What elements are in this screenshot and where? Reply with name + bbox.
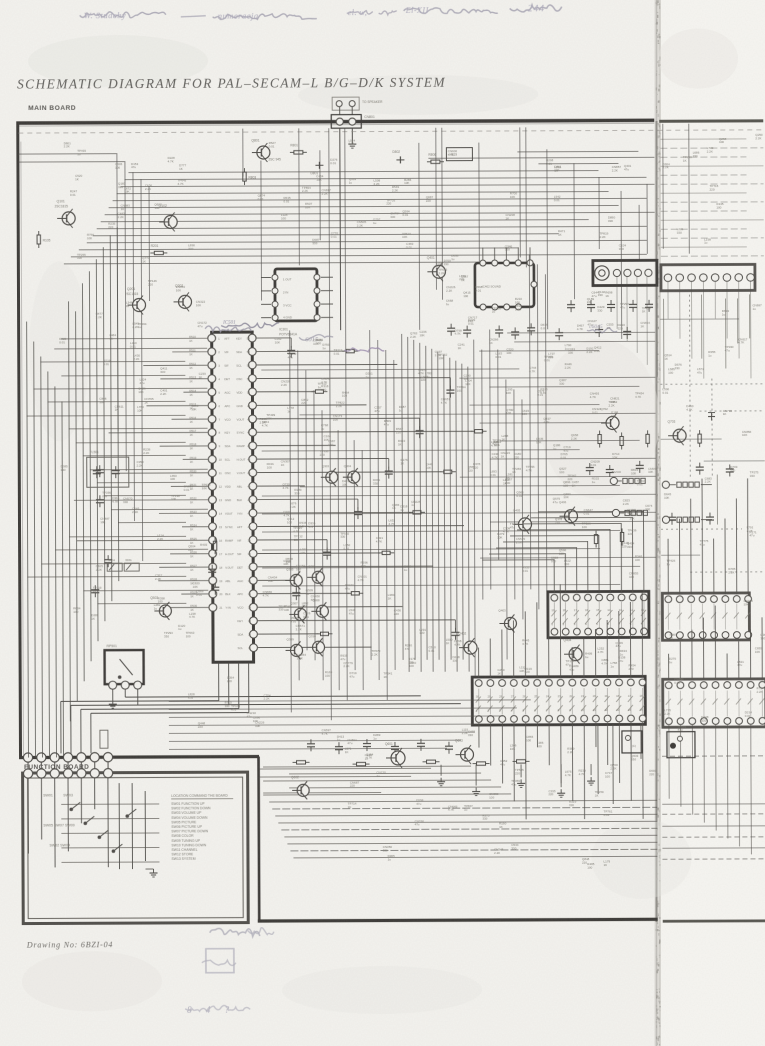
- wires IC801 right part to bus: [669, 725, 751, 855]
- relay RP501 body: [105, 644, 144, 684]
- pencil sketch bottom center: [202, 928, 274, 973]
- transistor Q503: [150, 596, 171, 620]
- connector CN402 right part beyond fold: [661, 264, 755, 290]
- wire bus bottom horizontals lower: [269, 800, 657, 858]
- IC U601 body right part beyond fold: [662, 593, 751, 640]
- IC501 pin stub wires left: [61, 338, 208, 608]
- connector strip CN701: [610, 470, 645, 485]
- transistor Q304: [343, 464, 360, 486]
- transistor Q603: [455, 739, 474, 765]
- IC U801 body right part beyond fold: [663, 679, 765, 727]
- transistor Q310: [307, 634, 324, 656]
- transistor Q702: [600, 407, 619, 433]
- scattered reference labels: [58, 133, 765, 872]
- capacitor cluster under IC401: [447, 323, 631, 341]
- component box M601: [622, 731, 642, 753]
- resistor R403: [200, 537, 217, 554]
- IC501 left pins: [208, 334, 217, 611]
- transistor Q202: [173, 284, 191, 312]
- wire bus center vertical bundle: [402, 329, 499, 671]
- diode-resistor parts under IC801: [292, 738, 529, 766]
- pencil marks page bottom: [185, 1005, 250, 1015]
- component box M602 right of fold: [667, 732, 695, 758]
- dashed line under top border: [18, 130, 763, 133]
- diode D703: [708, 413, 715, 421]
- wire bus top verticals: [117, 124, 691, 561]
- pencil note c6045: [587, 323, 617, 333]
- wire bus center-right horizontals: [261, 332, 656, 586]
- resistor R801: [290, 143, 307, 154]
- right strip connector plugs: [662, 481, 712, 523]
- wire bus function board to right: [259, 768, 431, 793]
- function board inner border: [28, 777, 244, 918]
- wires between board connectors: [28, 761, 108, 769]
- IC601 internal labels: [551, 608, 644, 626]
- wires IC501 to function board: [61, 663, 249, 754]
- transistor Q403: [498, 608, 516, 632]
- IC501 outside labels left: [189, 335, 197, 612]
- transistor Q102: [159, 204, 178, 232]
- main board border top: [16, 120, 654, 123]
- main board border bottom: [258, 919, 658, 921]
- pencil note samsung 13a: [205, 326, 251, 332]
- ground symbols under Q601 area: [437, 764, 595, 798]
- transistor Q406: [559, 500, 578, 526]
- pencil note 6015: [299, 335, 333, 344]
- transistor Q308: [311, 598, 328, 620]
- IC U501 body: [212, 332, 254, 662]
- capacitors under connector CN402: [567, 300, 653, 312]
- wire bus top mesh right-of-fold: [660, 139, 764, 256]
- right strip horizontals mid: [660, 319, 765, 572]
- transistor Q404: [564, 638, 583, 664]
- transistor Q602: [291, 775, 309, 799]
- transistor Q801: [251, 138, 281, 162]
- wire bus top mesh horizontals: [18, 151, 654, 264]
- left area capacitors: [91, 465, 220, 598]
- IC301 pin stubs: [261, 277, 333, 318]
- IC801 internal labels: [476, 694, 643, 713]
- IC801 lower pin wires: [479, 722, 643, 819]
- connector CN802 dashed box: [332, 97, 383, 110]
- transistor Q309: [285, 637, 302, 659]
- capacitor cluster y470 right: [586, 460, 734, 525]
- wire bus left horizontals to IC501: [26, 348, 208, 604]
- wire bus lower-left of IC801: [169, 700, 531, 750]
- pencil note above IC501: [221, 320, 279, 328]
- function board outer border: [23, 772, 249, 923]
- function board legend table: [171, 794, 233, 861]
- pencil note near IC301: [344, 348, 384, 352]
- transistor Q703: [668, 420, 687, 446]
- wires from RP501: [125, 688, 461, 705]
- IC401 top stubs: [483, 247, 530, 259]
- transistor Q201: [125, 287, 146, 315]
- wire CN801 to board: [340, 107, 357, 330]
- connector CN402 left part: [593, 260, 657, 285]
- pencil handwriting header: [80, 4, 562, 21]
- transistor Q402: [458, 632, 477, 658]
- connector strip CN702: [612, 509, 647, 516]
- transistor Q405: [513, 508, 532, 534]
- resistor R201: [150, 244, 167, 255]
- transistor Q305: [285, 567, 302, 589]
- wires below connector CN402: [617, 276, 751, 379]
- resistor cluster right: [594, 430, 702, 547]
- IC U301 body: [272, 269, 320, 337]
- main board border left: [18, 123, 21, 759]
- transistor Q101: [55, 199, 76, 228]
- resistor R806: [427, 153, 444, 164]
- jumper labels 3404 3361: [107, 558, 139, 571]
- right strip verticals: [664, 294, 751, 524]
- main board border bottom-left shelf: [19, 757, 259, 758]
- RP501 ground: [109, 689, 117, 708]
- fold crease band: [655, 0, 662, 1046]
- main board border notch vertical: [257, 757, 260, 922]
- connector row on main board bottom shelf: [23, 753, 112, 763]
- transistor Q303: [321, 464, 338, 486]
- IC801 riser wires: [478, 583, 762, 680]
- IC501 right pins: [248, 334, 257, 651]
- wire bus bottom right-of-fold: [662, 756, 765, 859]
- transistor Q307: [289, 601, 306, 623]
- component box H801: [446, 148, 472, 161]
- wire bus center verticals: [289, 127, 548, 720]
- diode D801: [310, 162, 323, 176]
- component C560 near border: [100, 730, 108, 748]
- IC U801 body left part: [472, 676, 646, 725]
- resistor R105: [37, 231, 51, 248]
- diode D802: [392, 150, 404, 164]
- wire bus left verticals: [26, 227, 119, 757]
- connector CN801: [331, 115, 375, 129]
- paper background right of fold: [661, 0, 765, 1046]
- transistor Q601: [385, 742, 405, 768]
- IC501 internal pin labels: [218, 337, 251, 651]
- IC U401 body: [475, 260, 537, 310]
- IC501 pin stub wires right: [257, 337, 488, 648]
- RP501 pins: [109, 681, 142, 689]
- connector row on function board top: [23, 769, 112, 779]
- filter FL501 box: [87, 450, 129, 487]
- function board switch wiring: [28, 778, 159, 878]
- resistor R803: [243, 168, 257, 185]
- IC U601 body left part: [548, 591, 649, 637]
- transistor Q306: [307, 564, 324, 586]
- wire bus bottom horizontals upper: [263, 766, 511, 795]
- transistor Q401: [427, 256, 446, 282]
- wires under IC801 left columns: [598, 724, 641, 804]
- IC601 riser wires: [482, 478, 748, 595]
